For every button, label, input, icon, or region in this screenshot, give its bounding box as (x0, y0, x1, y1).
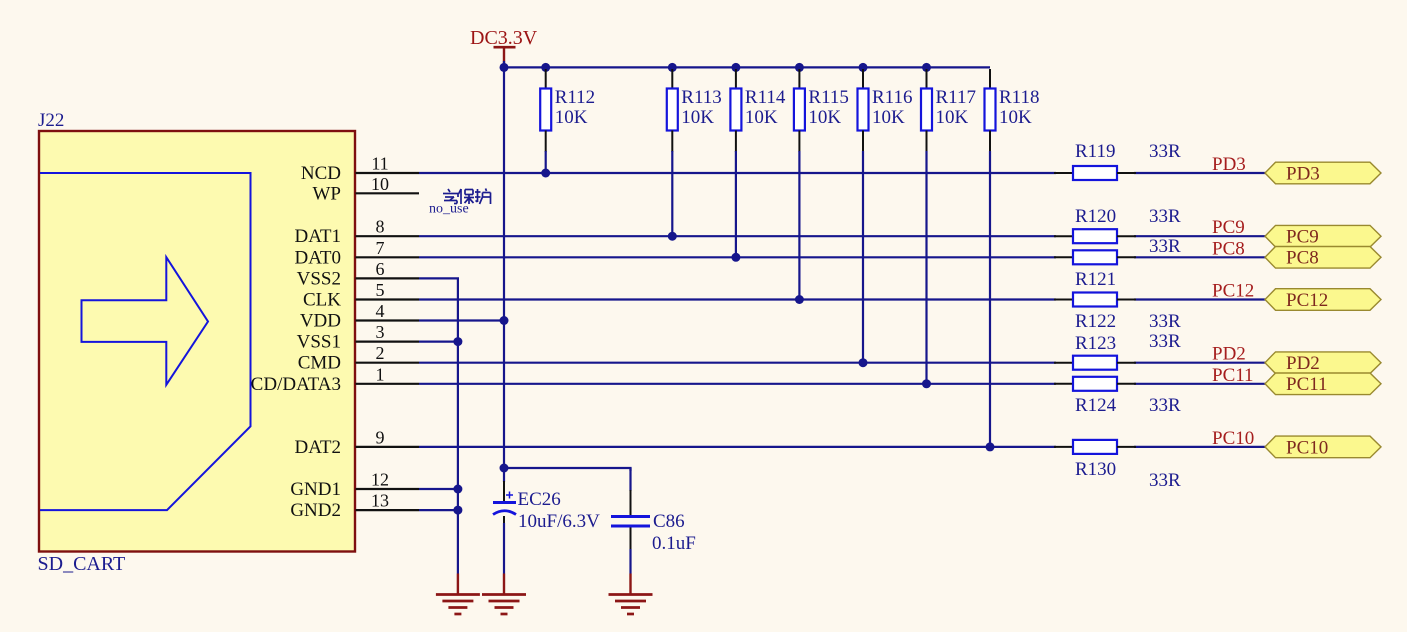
svg-text:R118: R118 (999, 87, 1039, 108)
svg-text:10K: 10K (681, 107, 714, 128)
svg-text:3: 3 (376, 322, 385, 342)
svg-text:33R: 33R (1149, 331, 1181, 352)
wire net NCD/PD3 left segment (419, 172, 1056, 174)
wire net DAT0/PC8 left segment (419, 256, 1056, 258)
svg-text:0.1uF: 0.1uF (652, 533, 696, 554)
svg-text:WP: WP (313, 183, 342, 204)
wire VSS1 (419, 341, 458, 343)
wire net DAT2/PC10 right segment to flag (1134, 446, 1266, 448)
svg-text:VSS2: VSS2 (297, 268, 341, 289)
resistor R118 10K (985, 69, 1040, 447)
resistor R115 10K (794, 69, 849, 300)
wire net CMD/PD2 left segment (419, 362, 1056, 364)
resistor R123 33R body (1054, 356, 1136, 370)
svg-text:C86: C86 (653, 511, 685, 532)
wire net CMD/PD2 right segment to flag (1134, 362, 1266, 364)
pin 2 (CMD) (298, 343, 419, 374)
pin 7 (DAT0) (295, 238, 419, 268)
svg-text:R115: R115 (808, 87, 848, 108)
pin 8 (DAT1) (295, 217, 419, 248)
svg-text:4: 4 (376, 301, 385, 321)
svg-text:R122: R122 (1075, 311, 1116, 332)
capacitor EC26 10uF/6.3V (493, 468, 600, 574)
junction on rail x=672.3 (668, 63, 677, 72)
svg-text:13: 13 (371, 491, 389, 511)
pin 1 (CD/DATA3) (251, 364, 419, 395)
wire GND2 (419, 509, 458, 511)
junction on rail x=735.9 (731, 63, 740, 72)
junction on rail x=799.4 (795, 63, 804, 72)
svg-text:12: 12 (371, 470, 389, 490)
svg-text:VSS1: VSS1 (297, 332, 341, 353)
pin 5 (CLK) (303, 280, 419, 311)
svg-text:33R: 33R (1149, 395, 1181, 416)
wire net DAT1/PC9 left segment (419, 235, 1056, 237)
pin 9 (DAT2) (295, 427, 419, 458)
svg-text:10: 10 (371, 174, 389, 194)
svg-text:R120: R120 (1075, 206, 1116, 227)
svg-text:PC8: PC8 (1286, 248, 1319, 269)
svg-text:33R: 33R (1149, 141, 1181, 162)
resistor R116 10K (858, 69, 913, 363)
pin 4 (VDD) (300, 301, 419, 332)
junction R115 to net (795, 295, 804, 304)
svg-text:10K: 10K (872, 107, 905, 128)
svg-text:CLK: CLK (303, 290, 341, 311)
resistor R122 33R body (1054, 293, 1136, 307)
junction VDD (500, 316, 509, 325)
wire branch to C86 (504, 468, 631, 471)
net flag PC8 (1265, 247, 1381, 269)
svg-text:PD3: PD3 (1286, 163, 1320, 184)
junction R113 to net (668, 232, 677, 241)
svg-text:10K: 10K (936, 107, 969, 128)
svg-text:33R: 33R (1149, 311, 1181, 332)
svg-text:11: 11 (371, 154, 388, 174)
svg-text:PC11: PC11 (1212, 365, 1254, 386)
svg-text:10uF/6.3V: 10uF/6.3V (518, 511, 600, 532)
net flag PC12 (1265, 289, 1381, 311)
note 写保护 (write-protect) (443, 189, 491, 205)
net flag PD2 (1265, 352, 1381, 374)
junction R114 to net (731, 253, 740, 262)
net flag PC9 (1265, 225, 1381, 247)
wire GND1 (419, 488, 458, 490)
resistor R113 10K (667, 69, 722, 236)
wire net CLK/PC12 left segment (419, 298, 1056, 300)
ground C86 (609, 574, 653, 615)
pin 12 (GND1) (290, 470, 419, 501)
junction VSS1 (453, 337, 462, 346)
svg-text:no_use: no_use (429, 202, 469, 217)
junction GND2 (453, 506, 462, 515)
svg-text:CD/DATA3: CD/DATA3 (251, 374, 341, 395)
svg-text:R112: R112 (555, 87, 595, 108)
net flag PD3 (1265, 162, 1381, 184)
svg-text:PC9: PC9 (1286, 227, 1319, 248)
svg-text:33R: 33R (1149, 206, 1181, 227)
resistor R114 10K (730, 69, 785, 257)
resistor R121 33R body (1054, 250, 1136, 264)
resistor R120 33R body (1054, 229, 1136, 243)
svg-text:CMD: CMD (298, 353, 341, 374)
svg-text:PD3: PD3 (1212, 154, 1246, 175)
resistor R124 33R body (1054, 377, 1136, 391)
svg-text:PD2: PD2 (1286, 353, 1320, 374)
svg-text:33R: 33R (1149, 470, 1181, 491)
junction on rail x=926.5 (922, 63, 931, 72)
svg-text:1: 1 (376, 364, 385, 384)
wire net DAT0/PC8 right segment to flag (1134, 256, 1266, 258)
pin 6 (VSS2) (297, 259, 419, 290)
wire net CLK/PC12 right segment to flag (1134, 298, 1266, 300)
pin 11 (NCD) (301, 154, 419, 185)
junction on rail x=863 (859, 63, 868, 72)
pin 10 (WP) (313, 174, 420, 205)
connector J22 body (39, 131, 355, 552)
svg-text:PC12: PC12 (1212, 281, 1254, 302)
svg-text:VDD: VDD (300, 311, 341, 332)
svg-text:DAT0: DAT0 (295, 247, 341, 268)
svg-text:PD2: PD2 (1212, 344, 1246, 365)
svg-text:R117: R117 (936, 87, 976, 108)
svg-text:PC11: PC11 (1286, 374, 1328, 395)
svg-text:R121: R121 (1075, 269, 1116, 290)
svg-text:PC10: PC10 (1212, 428, 1254, 449)
svg-text:DAT2: DAT2 (295, 437, 341, 458)
resistor R112 10K (540, 69, 595, 173)
resistor R117 10K (921, 69, 976, 384)
net flag PC11 (1265, 373, 1381, 395)
junction GND1 (453, 485, 462, 494)
svg-text:10K: 10K (745, 107, 778, 128)
wire net CD_DATA3/PC11 left segment (419, 383, 1056, 385)
junction R117 to net (922, 379, 931, 388)
junction R116 to net (859, 358, 868, 367)
svg-text:10K: 10K (999, 107, 1032, 128)
svg-text:R116: R116 (872, 87, 912, 108)
resistor R119 33R body (1054, 166, 1136, 180)
resistor R130 33R body (1054, 440, 1136, 454)
svg-text:J22: J22 (38, 110, 64, 131)
net flag PC10 (1265, 436, 1381, 458)
pin 13 (GND2) (290, 491, 419, 521)
svg-text:DC3.3V: DC3.3V (470, 27, 538, 49)
svg-text:2: 2 (376, 343, 385, 363)
svg-text:DAT1: DAT1 (295, 226, 341, 247)
svg-text:NCD: NCD (301, 163, 341, 184)
svg-text:R114: R114 (745, 87, 786, 108)
svg-text:SD_CART: SD_CART (38, 553, 126, 575)
junction on rail x=545.7 (541, 63, 550, 72)
wire net CD_DATA3/PC11 right segment to flag (1134, 383, 1266, 385)
svg-text:7: 7 (376, 238, 385, 258)
svg-text:PC12: PC12 (1286, 290, 1328, 311)
wire: power vertical to EC26 (503, 67, 505, 469)
svg-text:6: 6 (376, 259, 385, 279)
svg-text:GND2: GND2 (290, 500, 341, 521)
svg-text:GND1: GND1 (290, 479, 341, 500)
wire net DAT1/PC9 right segment to flag (1134, 235, 1266, 237)
svg-text:PC10: PC10 (1286, 437, 1328, 458)
ground EC26 (482, 574, 526, 615)
wire VDD to rail (419, 319, 504, 321)
wire: DC3.3V rail (504, 66, 990, 68)
svg-text:10K: 10K (555, 107, 588, 128)
svg-text:10K: 10K (808, 107, 841, 128)
capacitor C86 0.1uF (611, 468, 696, 574)
power symbol DC3.3V (470, 27, 538, 67)
svg-text:PC9: PC9 (1212, 217, 1245, 238)
junction R112 to net (541, 169, 550, 178)
svg-text:PC8: PC8 (1212, 238, 1245, 259)
wire net NCD/PD3 right segment to flag (1134, 172, 1266, 174)
svg-text:8: 8 (376, 217, 385, 237)
svg-text:R130: R130 (1075, 459, 1116, 480)
svg-text:33R: 33R (1149, 236, 1181, 257)
ground VSS (436, 574, 480, 615)
svg-text:R123: R123 (1075, 333, 1116, 354)
wire net DAT2/PC10 left segment (419, 446, 1056, 448)
svg-text:5: 5 (376, 280, 385, 300)
svg-text:R113: R113 (681, 87, 721, 108)
pin 3 (VSS1) (297, 322, 419, 353)
junction branch (500, 464, 509, 473)
junction on rail x=504 (500, 63, 509, 72)
svg-text:R119: R119 (1075, 141, 1115, 162)
svg-text:EC26: EC26 (518, 489, 561, 510)
SD card outline (40, 173, 251, 510)
svg-text:R124: R124 (1075, 395, 1117, 416)
arrow symbol (82, 257, 209, 385)
junction R118 to net (986, 442, 995, 451)
svg-text:9: 9 (376, 427, 385, 447)
wire VSS2 (419, 278, 458, 573)
